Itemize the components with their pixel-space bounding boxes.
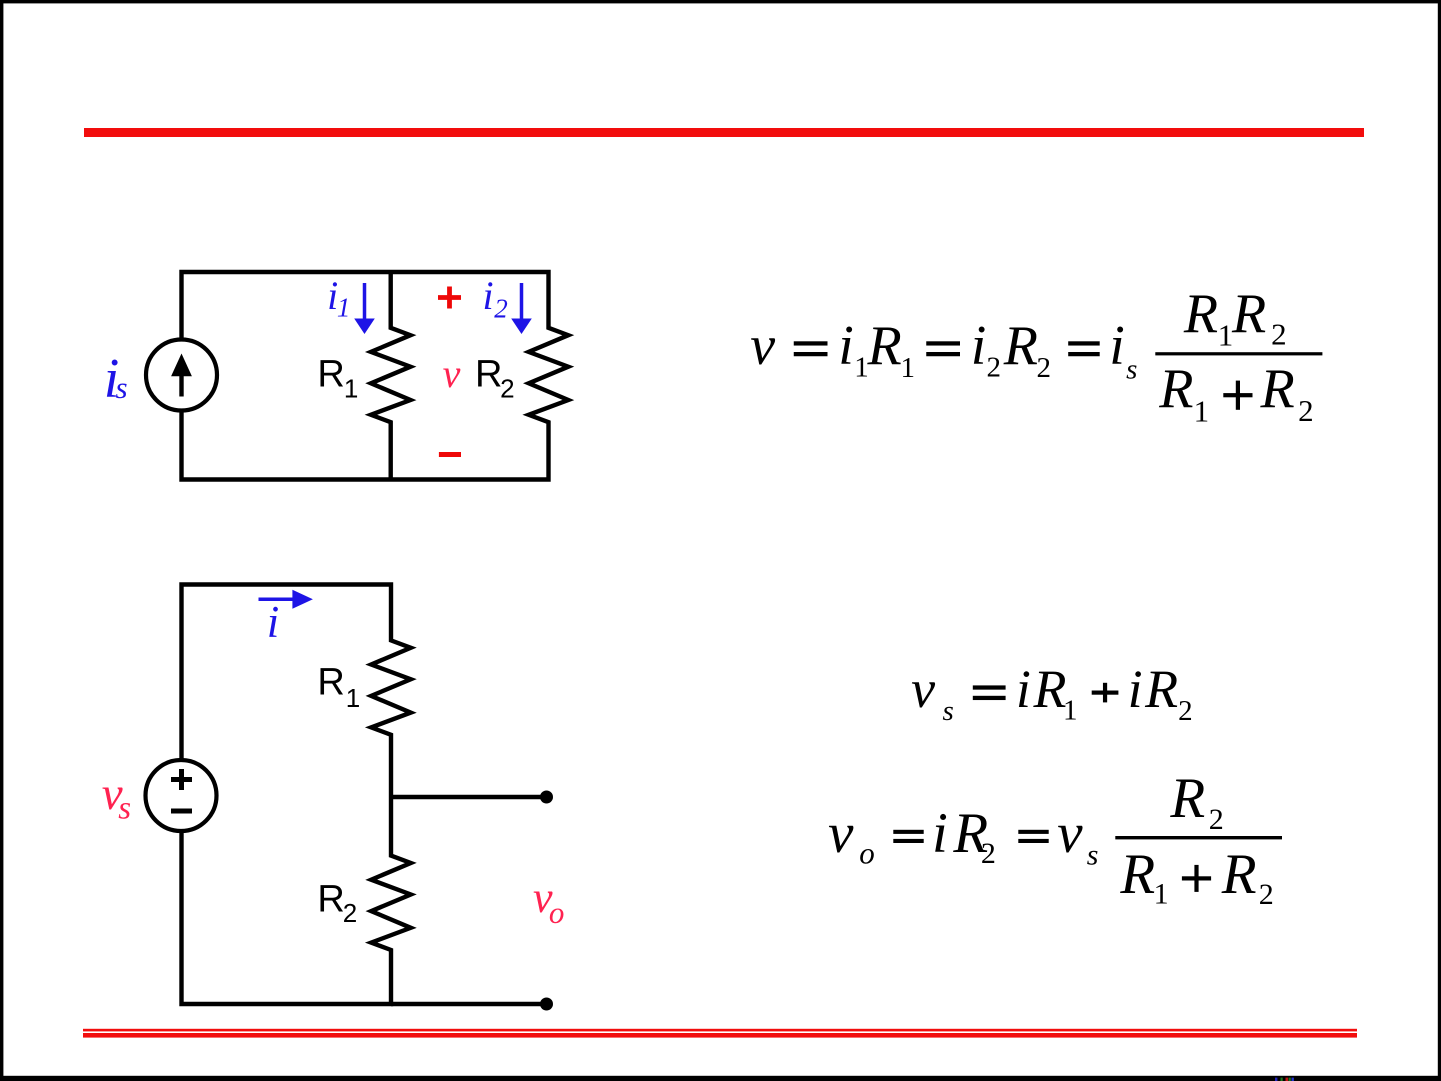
svg-text:2: 2 bbox=[1298, 393, 1314, 428]
voltage source vs bbox=[146, 760, 217, 831]
svg-text:v: v bbox=[1057, 802, 1083, 865]
label is (source current) bbox=[104, 348, 128, 410]
svg-text:i: i bbox=[838, 315, 854, 377]
svg-text:s: s bbox=[118, 791, 131, 827]
svg-text:R: R bbox=[317, 661, 344, 703]
current arrow i (bottom circuit) bbox=[259, 590, 313, 609]
svg-text:R: R bbox=[1033, 659, 1067, 719]
svg-text:R: R bbox=[1144, 659, 1178, 719]
label R2 (bottom circuit) bbox=[317, 879, 357, 928]
svg-text:R: R bbox=[1260, 358, 1295, 420]
svg-text:v: v bbox=[911, 659, 935, 719]
svg-text:1: 1 bbox=[901, 352, 916, 384]
equation: vo = iR2 = vs R2/(R1+R2) bbox=[828, 767, 1282, 911]
label vs (source voltage) bbox=[102, 768, 131, 827]
svg-text:s: s bbox=[1087, 839, 1099, 872]
label R1 (top circuit) bbox=[317, 353, 358, 403]
svg-text:i: i bbox=[1016, 659, 1031, 719]
svg-text:i: i bbox=[1109, 315, 1125, 377]
svg-text:2: 2 bbox=[1037, 352, 1052, 384]
current arrow i1 bbox=[354, 283, 375, 334]
svg-text:2: 2 bbox=[1259, 878, 1274, 911]
svg-text:2: 2 bbox=[494, 293, 508, 323]
svg-text:i: i bbox=[971, 315, 987, 377]
polarity plus sign bbox=[438, 287, 461, 309]
svg-text:R: R bbox=[1183, 283, 1218, 345]
svg-text:s: s bbox=[943, 695, 954, 727]
svg-text:s: s bbox=[116, 370, 128, 405]
svg-text:o: o bbox=[859, 835, 875, 870]
wire: bottom wire to output node bbox=[391, 1002, 547, 1006]
resistor R1 (top circuit) middle branch bbox=[371, 272, 411, 480]
label R1 (bottom circuit) bbox=[317, 661, 360, 713]
svg-text:v: v bbox=[828, 802, 854, 865]
svg-text:R: R bbox=[1169, 767, 1205, 830]
svg-text:R: R bbox=[1119, 843, 1155, 906]
svg-text:2: 2 bbox=[981, 837, 996, 870]
svg-text:1: 1 bbox=[1218, 318, 1234, 353]
svg-text:2: 2 bbox=[1271, 316, 1287, 351]
wire: bottom-circuit loop; right branch holds R1 and R2 zigzags bbox=[182, 585, 411, 1005]
svg-text:i: i bbox=[267, 597, 280, 647]
current source is bbox=[146, 340, 217, 411]
node: output terminal top bbox=[540, 791, 553, 804]
equation: v = i1R1 = i2R2 = is R1R2/(R1+R2) bbox=[750, 283, 1322, 429]
svg-text:i: i bbox=[483, 273, 494, 318]
svg-text:R: R bbox=[317, 879, 344, 921]
svg-text:R: R bbox=[475, 354, 502, 396]
svg-text:2: 2 bbox=[1178, 695, 1193, 727]
wire: output tap from divider midpoint bbox=[391, 795, 547, 799]
svg-text:2: 2 bbox=[1209, 803, 1224, 836]
equation: vs = iR1 + iR2 bbox=[911, 659, 1193, 727]
current arrow i2 bbox=[511, 283, 532, 334]
svg-text:2: 2 bbox=[500, 373, 514, 403]
wire: top-circuit outer loop; resistor R2 zigzag on right side bbox=[182, 272, 569, 480]
svg-text:i: i bbox=[1128, 659, 1143, 719]
svg-text:R: R bbox=[1003, 315, 1038, 377]
svg-text:1: 1 bbox=[346, 683, 360, 713]
node: output terminal bottom bbox=[540, 998, 553, 1011]
polarity minus sign bbox=[439, 452, 461, 457]
svg-text:1: 1 bbox=[1154, 878, 1169, 911]
svg-text:1: 1 bbox=[1194, 394, 1210, 429]
svg-text:R: R bbox=[1231, 283, 1266, 345]
svg-text:v: v bbox=[443, 351, 461, 396]
svg-text:2: 2 bbox=[987, 352, 1002, 384]
svg-text:1: 1 bbox=[337, 292, 351, 322]
svg-text:R: R bbox=[1221, 843, 1257, 906]
label vo (output voltage) bbox=[533, 873, 564, 930]
svg-text:s: s bbox=[1126, 354, 1137, 386]
svg-text:1: 1 bbox=[344, 374, 358, 404]
svg-text:v: v bbox=[750, 315, 775, 377]
svg-text:i: i bbox=[932, 802, 948, 865]
svg-text:R: R bbox=[867, 315, 902, 377]
label i2 bbox=[483, 273, 508, 324]
svg-text:o: o bbox=[549, 895, 565, 930]
svg-text:2: 2 bbox=[343, 898, 357, 928]
label R2 (top circuit) bbox=[475, 354, 515, 404]
svg-text:1: 1 bbox=[1063, 695, 1078, 727]
svg-text:R: R bbox=[317, 353, 344, 395]
svg-text:R: R bbox=[1158, 358, 1193, 420]
label i1 bbox=[327, 273, 350, 323]
